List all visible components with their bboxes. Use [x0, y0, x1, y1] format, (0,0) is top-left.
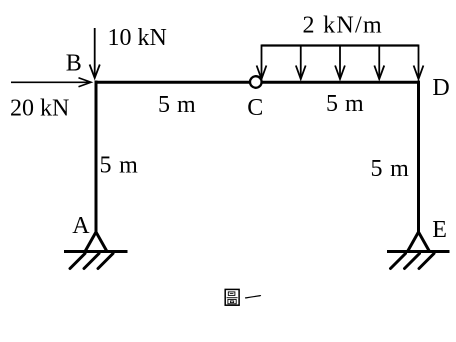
distributed load arrows — [257, 45, 424, 80]
svg-text:A: A — [72, 213, 90, 239]
svg-text:E: E — [432, 217, 447, 243]
svg-text:5 m: 5 m — [100, 152, 139, 178]
svg-text:20 kN: 20 kN — [10, 95, 69, 121]
support E ground line — [387, 250, 450, 253]
caption glyph 一 (one) — [245, 295, 261, 299]
svg-text:10 kN: 10 kN — [108, 25, 167, 51]
svg-text:B: B — [66, 51, 82, 77]
svg-text:5 m: 5 m — [158, 92, 196, 118]
support E triangle — [408, 232, 430, 252]
svg-text:5 m: 5 m — [371, 156, 410, 182]
caption glyph 圖 (Figure) — [225, 289, 239, 305]
wire beam B-C-D — [95, 81, 421, 84]
support A ground line — [64, 250, 128, 253]
force arrow 10 kN — [90, 28, 100, 78]
force arrow 20 kN — [11, 78, 91, 87]
svg-text:2 kN/m: 2 kN/m — [303, 13, 383, 39]
svg-text:5 m: 5 m — [326, 91, 364, 117]
svg-text:C: C — [247, 95, 263, 121]
distributed load 2 kN/m bracket — [262, 44, 419, 46]
svg-text:D: D — [432, 75, 449, 101]
wire column A-B — [95, 81, 98, 234]
wire column E-D — [417, 81, 420, 234]
support E hatching — [391, 254, 435, 269]
hinge at C — [250, 76, 262, 88]
support A triangle — [85, 232, 107, 252]
support A hatching — [70, 254, 113, 269]
